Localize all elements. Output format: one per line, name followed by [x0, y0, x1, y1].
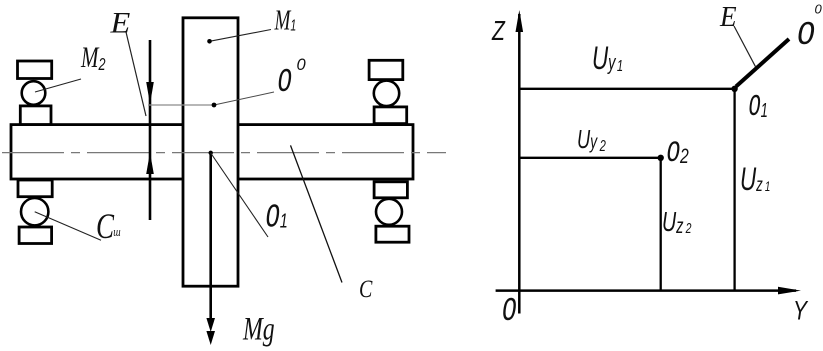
leader line of label E graph — [734, 26, 756, 67]
label O origin — [502, 292, 516, 330]
leader dot M1 — [207, 39, 212, 44]
svg-text:Cш: Cш — [96, 206, 121, 246]
arrowhead down on E line — [146, 82, 154, 104]
bearing ball bottom-left — [21, 198, 48, 225]
label Uy1 — [592, 40, 623, 76]
bearing inner race bottom-right — [374, 182, 407, 198]
label E left — [109, 6, 130, 40]
svg-text:Mg: Mg — [242, 311, 274, 348]
bearing ball top-left — [22, 81, 46, 105]
leader diagonal of label O0 — [214, 92, 274, 105]
leader line of label M1 — [210, 30, 272, 42]
Y axis — [496, 289, 796, 292]
Z axis — [518, 14, 521, 314]
force arrowhead lower chevron — [206, 331, 215, 345]
bearing ball top-right — [374, 81, 399, 106]
label M1 — [274, 5, 297, 37]
leader line of label O1 left — [211, 153, 268, 237]
svg-text:C: C — [359, 275, 373, 303]
Z axis arrowhead — [516, 10, 524, 32]
svg-text:O: O — [797, 18, 815, 55]
svg-text:Uz1: Uz1 — [740, 161, 770, 197]
svg-text:Y: Y — [793, 296, 809, 326]
svg-text:Uy1: Uy1 — [592, 40, 623, 76]
unbalance force line from O1 — [209, 153, 212, 322]
svg-text:M1: M1 — [274, 5, 297, 37]
shaft centerline — [2, 152, 446, 154]
svg-text:E: E — [719, 1, 737, 32]
bearing inner race top-left — [20, 106, 51, 125]
label C — [359, 275, 373, 303]
bearing inner race bottom-left — [18, 180, 52, 197]
leader dot O0 — [212, 103, 217, 108]
svg-text:O2: O2 — [667, 136, 690, 170]
svg-text:O: O — [502, 292, 516, 330]
shaft — [11, 125, 413, 179]
svg-text:0: 0 — [297, 56, 307, 74]
label Uz2 — [662, 207, 691, 238]
label O0 — [278, 63, 292, 101]
bearing inner race top-right — [374, 107, 407, 124]
svg-text:O: O — [278, 63, 292, 101]
leader line of label Cw — [35, 212, 101, 241]
label M2 — [80, 40, 106, 74]
node dot O1 graph — [731, 86, 737, 92]
rotor disk M1 — [183, 18, 238, 286]
svg-text:Uy2: Uy2 — [577, 125, 606, 155]
bearing outer race top-left — [18, 61, 52, 79]
label Y — [793, 296, 809, 326]
displacement polyline Uy1-Uz1 — [519, 89, 734, 291]
label O0 graph — [797, 18, 815, 55]
label Mg weight force — [242, 311, 274, 348]
eccentricity dimension line E — [149, 40, 152, 220]
Y axis arrowhead — [778, 287, 801, 295]
label O1 graph — [749, 89, 768, 125]
svg-text:O1: O1 — [266, 199, 288, 237]
leader line of label C — [291, 145, 343, 282]
svg-text:M2: M2 — [80, 40, 106, 74]
arrowhead up on E line — [146, 152, 154, 174]
leader line of label O0 — [148, 104, 214, 106]
svg-text:0: 0 — [815, 2, 823, 17]
node dot at force line top — [209, 151, 213, 155]
label Cw bearing stiffness — [96, 206, 121, 246]
node dot O2 graph — [658, 155, 664, 161]
displacement polyline Uy2-Uz2 — [519, 158, 660, 291]
label Z — [491, 16, 505, 47]
bearing outer race top-right — [369, 60, 403, 79]
svg-text:E: E — [109, 6, 130, 40]
label Uz1 — [740, 161, 770, 197]
label O1 left — [266, 199, 288, 237]
leader line of label E left — [126, 32, 146, 116]
force arrowhead upper chevron — [206, 318, 215, 332]
bearing outer race bottom-right — [376, 226, 409, 242]
svg-text:O1: O1 — [749, 89, 768, 125]
label E graph — [719, 1, 737, 32]
eccentricity segment O1-O0 graph — [736, 39, 789, 87]
svg-text:Uz2: Uz2 — [662, 207, 691, 238]
svg-text:Z: Z — [491, 16, 505, 47]
bearing ball bottom-right — [376, 199, 402, 225]
label Uy2 — [577, 125, 606, 155]
label O2 graph — [667, 136, 690, 170]
bearing outer race bottom-left — [19, 227, 52, 244]
leader line of label M2 — [35, 79, 81, 92]
